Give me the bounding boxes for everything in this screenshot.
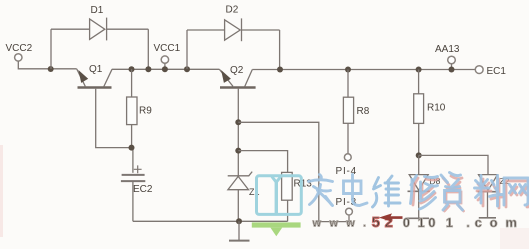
node VCC1 terminal — [161, 56, 168, 63]
wire bottom rail EC2 to R13 — [133, 220, 288, 222]
svg-text:R9: R9 — [139, 106, 152, 117]
svg-text:1: 1 — [446, 215, 453, 230]
wire D2 anode riser — [186, 30, 188, 69]
node junction dot (D1 cathode) — [145, 66, 151, 72]
resistor R8 — [343, 70, 353, 154]
wire VCC1 stub — [164, 63, 166, 69]
node junction dot (R9 top) — [129, 66, 135, 72]
svg-text:0: 0 — [428, 215, 435, 230]
watermark char 修 — [411, 176, 438, 210]
wire Q1 collector to Q2 emitter bus — [112, 68, 220, 70]
watermark char 資 — [441, 173, 463, 211]
wire Q2 base lead — [237, 89, 239, 176]
wire to Z2 — [419, 155, 488, 174]
watermark char 电 — [344, 175, 368, 206]
node PI-3 terminal — [346, 208, 353, 215]
wire D1 cathode drop — [147, 29, 149, 69]
diode D8 — [406, 155, 430, 218]
watermark char 网 — [504, 178, 528, 205]
svg-text:EC1: EC1 — [487, 66, 507, 77]
diode D1 — [51, 18, 148, 41]
resistor R10 — [414, 70, 424, 156]
resistor R9 — [127, 69, 137, 147]
svg-text:w: w — [345, 218, 355, 230]
diode D2 — [187, 18, 280, 41]
watermark char 修 (red layer) — [413, 178, 438, 205]
node junction dot (Z1 / R13 branch) — [235, 148, 241, 154]
svg-text:R8: R8 — [357, 106, 370, 117]
watermark char 家 — [309, 175, 333, 206]
watermark url 52 (red) — [372, 214, 393, 231]
resistor R13 — [282, 172, 293, 221]
watermark char 维 — [373, 176, 401, 207]
transistor Q2 — [219, 69, 255, 87]
watermark book icon — [257, 176, 302, 215]
node AA13 terminal — [448, 56, 456, 64]
node junction dot (D2 anode) — [184, 66, 190, 72]
watermark green ribbon — [252, 222, 301, 236]
zener Z2 — [478, 175, 499, 218]
svg-text:w: w — [312, 218, 322, 230]
wire D1 anode riser — [50, 29, 52, 69]
watermark char 資 (red layer) — [443, 176, 464, 211]
svg-text:D2: D2 — [226, 5, 239, 16]
wire R13 branch — [238, 151, 287, 173]
watermark url 0101.com — [403, 215, 517, 230]
node junction dot (ground rail) — [236, 218, 242, 224]
watermark url www. — [312, 218, 367, 230]
node junction dot (Q1 base / R9 / EC2) — [129, 145, 135, 151]
svg-text:5: 5 — [372, 214, 380, 231]
transistor Q1 — [77, 69, 112, 88]
wire AA13 stub — [451, 64, 453, 70]
watermark char 网 (red layer) — [506, 181, 529, 207]
svg-text:o: o — [490, 215, 498, 230]
svg-text:EC2: EC2 — [133, 184, 153, 195]
zener Z1 — [228, 172, 253, 222]
svg-text:c: c — [475, 215, 482, 230]
svg-text:D1: D1 — [91, 5, 104, 16]
node junction dot (R8 top) — [345, 67, 351, 73]
node junction dot (R10 top) — [416, 67, 422, 73]
wire VCC2 to Q1 emitter — [18, 61, 76, 69]
svg-text:AA13: AA13 — [435, 44, 460, 55]
svg-text:m: m — [505, 215, 517, 230]
svg-text:R10: R10 — [427, 103, 446, 114]
svg-text:Q2: Q2 — [230, 65, 244, 76]
node junction dot (D8/Z2 branch) — [416, 152, 422, 158]
svg-text:w: w — [329, 218, 339, 230]
svg-text:Q1: Q1 — [89, 64, 103, 75]
node VCC2 terminal — [15, 54, 22, 61]
node junction dot (Q2 base / PI-3 branch) — [235, 119, 241, 125]
watermark red arrow — [379, 213, 403, 221]
node junction dot A (VCC2/D1 anode) — [48, 66, 54, 72]
node EC1 terminal — [475, 66, 483, 74]
svg-text:.: . — [466, 215, 470, 230]
wire Q2 collector bus to EC1 — [252, 69, 475, 71]
watermark char 料 (red layer) — [477, 179, 503, 208]
node junction dot (AA13) — [449, 67, 455, 73]
wire Q1 base lead to R9 bottom — [96, 89, 132, 148]
wire D2 cathode drop — [279, 30, 281, 69]
node PI-4 terminal — [344, 154, 351, 161]
wire PI-3 branch — [238, 122, 349, 221]
watermark char 料 — [475, 176, 503, 207]
svg-text:VCC2: VCC2 — [6, 43, 33, 54]
svg-text:VCC1: VCC1 — [154, 43, 181, 54]
svg-text:0: 0 — [403, 215, 410, 230]
svg-text:1: 1 — [418, 215, 425, 230]
node junction dot (D2 cathode) — [277, 67, 283, 73]
capacitor EC2 — [121, 148, 145, 222]
node junction dot (VCC1) — [162, 66, 168, 72]
svg-text:.: . — [363, 218, 366, 230]
ground — [229, 221, 250, 240]
